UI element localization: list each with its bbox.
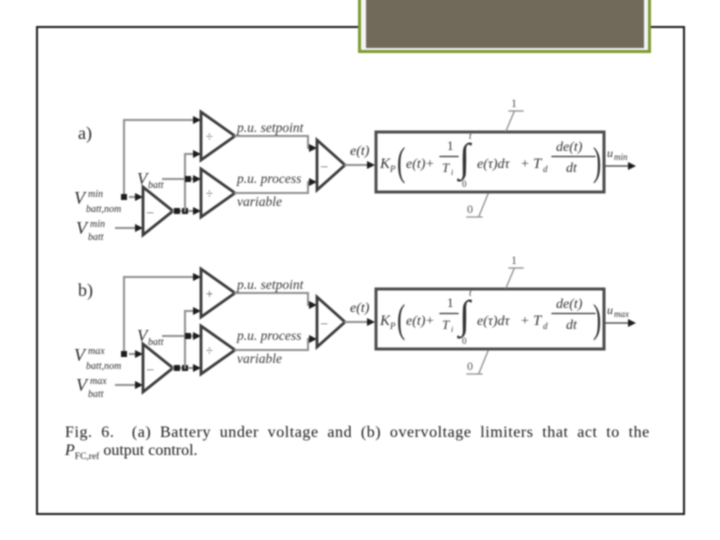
svg-text:): ) <box>593 297 601 341</box>
svg-text:b): b) <box>78 280 93 301</box>
wire Vmin-batt input <box>116 227 138 229</box>
label Vmax batt <box>76 375 107 400</box>
svg-text:1: 1 <box>511 96 517 110</box>
formula open paren (a) <box>397 140 405 184</box>
svg-text:max: max <box>90 376 107 387</box>
saturation upper limit 1 (a) <box>511 96 517 110</box>
svg-text:dt: dt <box>566 161 578 176</box>
svg-text:(: ( <box>397 297 405 341</box>
svg-text:P: P <box>389 164 396 174</box>
saturation 1 bar (a) <box>509 110 523 112</box>
svg-text:p.u. setpoint: p.u. setpoint <box>236 277 305 292</box>
label u_max (b) <box>607 303 629 319</box>
svg-text:(: ( <box>397 140 405 184</box>
PID block box (a) <box>376 132 604 192</box>
svg-text:–: – <box>320 315 328 330</box>
fraction bar de/dt (a) <box>552 156 595 158</box>
formula e(t)+ (a) <box>406 157 434 172</box>
svg-text:de(t): de(t) <box>556 297 583 312</box>
svg-text:p.u. process: p.u. process <box>236 328 301 343</box>
svg-text:+: + <box>206 287 213 301</box>
wire PID output (a) <box>605 165 628 167</box>
arrowhead into summer S2 bottom input (b) <box>309 335 317 343</box>
label p.u. setpoint (a) <box>236 120 305 135</box>
formula integral (b) <box>456 288 473 346</box>
wire divider U4 output to summer S2 (b) <box>235 339 313 350</box>
svg-text:+: + <box>426 314 434 329</box>
wire Vmax-batt input <box>116 384 138 386</box>
label variable (b) <box>237 351 282 366</box>
formula open paren (b) <box>397 297 405 341</box>
PID block box (b) <box>376 289 604 349</box>
divider U4 (b, p.u. process variable) <box>201 326 235 374</box>
svg-text:0: 0 <box>462 179 467 189</box>
wire Vmin-batt,nom input with branch to divider 1 <box>124 120 198 197</box>
svg-text:batt: batt <box>88 389 104 400</box>
svg-text:–: – <box>146 361 154 376</box>
svg-text:p.u. process: p.u. process <box>236 171 301 186</box>
svg-text:+: + <box>426 157 434 172</box>
label p.u. setpoint (b) <box>236 277 305 292</box>
svg-text:i: i <box>451 168 453 177</box>
svg-text:÷: ÷ <box>206 344 213 358</box>
formula fraction 1/Ti (a) <box>442 138 454 177</box>
saturation 0 diagonal (b) <box>479 351 488 373</box>
slide title placeholder: green outlined box <box>358 0 651 53</box>
label Vbatt (b) <box>137 326 164 348</box>
svg-text:÷: ÷ <box>206 130 213 144</box>
arrowhead PID output (a) <box>628 162 636 170</box>
junction on A1 output <box>174 208 180 214</box>
formula Kp (a) <box>379 156 396 174</box>
junction Vbatt/rail crossing (b) <box>185 333 191 339</box>
svg-text:batt: batt <box>148 337 164 348</box>
label a) <box>78 123 92 144</box>
formula e(tau)dtau + Td (a) <box>477 156 548 174</box>
svg-text:batt,nom: batt,nom <box>86 361 121 372</box>
svg-text:e(t): e(t) <box>406 157 426 172</box>
wire summer S2 output to PID box (b) <box>345 321 370 323</box>
label Vbatt (a) <box>137 169 164 191</box>
junction on Vmin-batt,nom wire <box>121 194 127 200</box>
label Vmax batt,nom <box>74 345 121 372</box>
svg-text:min: min <box>614 152 628 162</box>
saturation 1 diagonal (b) <box>506 269 514 288</box>
svg-text:min: min <box>90 219 105 230</box>
arrowhead into summer S1 top input (a) <box>309 144 317 152</box>
svg-text:e(τ)dτ: e(τ)dτ <box>477 314 511 329</box>
svg-text:variable: variable <box>237 351 282 366</box>
arrowhead into divider U4 bottom input <box>193 364 201 372</box>
formula e(t)+ (b) <box>406 314 434 329</box>
label u_min (a) <box>607 146 628 162</box>
svg-text:variable: variable <box>237 194 282 209</box>
formula fraction de(t)/dt (a) <box>556 140 583 176</box>
svg-text:): ) <box>593 140 601 184</box>
subtractor A2 (b) <box>143 344 173 392</box>
svg-text:e(t): e(t) <box>350 144 370 159</box>
junction on A2 output <box>174 365 180 371</box>
svg-text:T: T <box>442 160 450 175</box>
wire Vbatt to divider U2 upper input (a) <box>163 178 196 180</box>
arrowhead into summer S2 top input (b) <box>309 301 317 309</box>
wire divider U1 output to summer S1 (a) <box>235 136 313 148</box>
arrowhead into divider U4 top input <box>193 332 201 340</box>
arrowhead into summer S1 bottom input (a) <box>309 178 317 186</box>
wire Vbatt to divider U4 upper input (b) <box>163 335 196 337</box>
arrowhead into divider U3 bottom input <box>193 307 201 315</box>
svg-text:P: P <box>389 321 396 331</box>
arrowhead into divider U2 bottom input <box>193 207 201 215</box>
arrowhead into PID box (a) <box>367 161 375 169</box>
saturation 1 bar (b) <box>509 267 523 269</box>
title placeholder dark fill <box>366 0 644 48</box>
label e(t) (a) <box>350 144 370 159</box>
fraction bar 1/Ti (b) <box>440 313 458 315</box>
svg-text:–: – <box>320 158 328 173</box>
wire divider U2 output to summer S1 (a) <box>235 182 313 193</box>
wire Vmax-batt,nom input with branch to divider 3 <box>124 277 198 354</box>
label e(t) (b) <box>350 301 370 316</box>
wire summer S1 output to PID box (a) <box>345 164 370 166</box>
arrowhead into subtractor A2 bottom input <box>135 381 143 389</box>
fraction bar de/dt (b) <box>552 313 595 315</box>
saturation 1 diagonal (a) <box>506 112 514 131</box>
svg-text:T: T <box>442 317 450 332</box>
svg-text:max: max <box>88 346 105 357</box>
formula close paren (a) <box>593 140 601 184</box>
svg-text:e(t): e(t) <box>350 301 370 316</box>
svg-text:d: d <box>543 164 548 174</box>
junction Vbatt/rail crossing (a) <box>185 176 191 182</box>
svg-text:batt: batt <box>88 232 104 243</box>
svg-text:a): a) <box>78 123 92 144</box>
formula fraction de(t)/dt (b) <box>556 297 583 333</box>
arrowhead into divider U1 bottom input <box>193 150 201 158</box>
subtractor A1 (a) <box>143 187 173 235</box>
svg-text:+: + <box>521 314 529 329</box>
svg-text:u: u <box>607 146 613 160</box>
svg-text:+: + <box>521 157 529 172</box>
svg-text:min: min <box>88 189 103 200</box>
svg-text:1: 1 <box>447 138 454 153</box>
label p.u. process (a) <box>236 171 301 186</box>
summer S2 (b) <box>317 297 345 347</box>
svg-text:e(τ)dτ: e(τ)dτ <box>477 157 511 172</box>
wire divider U3 output to summer S2 (b) <box>235 293 313 305</box>
label Vmin batt,nom <box>74 188 121 215</box>
formula close paren (b) <box>593 297 601 341</box>
junction rail tap (b) <box>182 365 188 371</box>
svg-text:–: – <box>146 204 154 219</box>
arrowhead into subtractor A2 top input <box>135 350 143 358</box>
arrowhead into divider U3 top input <box>193 273 201 281</box>
svg-text:e(t): e(t) <box>406 314 426 329</box>
svg-text:1: 1 <box>511 253 517 267</box>
junction on Vmax-batt,nom wire <box>121 351 127 357</box>
figure caption <box>65 424 675 466</box>
svg-text:0: 0 <box>467 202 473 216</box>
svg-text:batt: batt <box>148 180 164 191</box>
svg-text:0: 0 <box>462 336 467 346</box>
wire rail from A1 output up to divider U1 lower input <box>185 154 196 211</box>
divider U3 (b, p.u. setpoint) <box>201 269 235 317</box>
label variable (a) <box>237 194 282 209</box>
arrowhead into divider U1 top input <box>193 116 201 124</box>
title placeholder white gap <box>361 0 648 50</box>
arrowhead into subtractor A1 bottom input <box>135 224 143 232</box>
fraction bar 1/Ti (a) <box>440 156 458 158</box>
label b) <box>78 280 93 301</box>
arrowhead into PID box (b) <box>367 318 375 326</box>
saturation upper limit 1 (b) <box>511 253 517 267</box>
svg-text:u: u <box>607 303 613 317</box>
wire subtractor A1 output to divider U2 lower input <box>173 210 196 212</box>
svg-text:batt,nom: batt,nom <box>86 204 121 215</box>
svg-text:de(t): de(t) <box>556 140 583 155</box>
divider U1 (a, p.u. setpoint) <box>201 112 235 160</box>
saturation lower limit 0 (b) <box>467 359 473 373</box>
saturation 0 diagonal (a) <box>479 194 488 216</box>
svg-text:max: max <box>614 309 629 319</box>
formula Kp (b) <box>379 313 396 331</box>
svg-text:p.u. setpoint: p.u. setpoint <box>236 120 305 135</box>
arrowhead into subtractor A1 top input <box>135 193 143 201</box>
svg-text:1: 1 <box>447 295 454 310</box>
arrowhead PID output (b) <box>628 319 636 327</box>
wire subtractor A2 output to divider U4 lower input <box>173 367 196 369</box>
summer S1 (a) <box>317 140 345 190</box>
saturation 0 bar (b) <box>467 373 482 375</box>
junction rail tap <box>182 208 188 214</box>
svg-text:i: i <box>451 325 453 334</box>
formula e(tau)dtau + Td (b) <box>477 313 548 331</box>
wire rail from A2 output up to divider U3 lower input <box>185 311 196 368</box>
formula fraction 1/Ti (b) <box>442 295 454 334</box>
svg-text:0: 0 <box>467 359 473 373</box>
label p.u. process (b) <box>236 328 301 343</box>
saturation 0 bar (a) <box>467 216 482 218</box>
wire PID output (b) <box>605 322 628 324</box>
divider U2 (a, p.u. process variable) <box>201 169 235 217</box>
formula integral (a) <box>456 131 473 189</box>
arrowhead into divider U2 top input <box>193 175 201 183</box>
saturation lower limit 0 (a) <box>467 202 473 216</box>
svg-text:d: d <box>543 321 548 331</box>
svg-text:÷: ÷ <box>206 187 213 201</box>
svg-text:dt: dt <box>566 318 578 333</box>
label Vmin batt <box>76 218 105 243</box>
